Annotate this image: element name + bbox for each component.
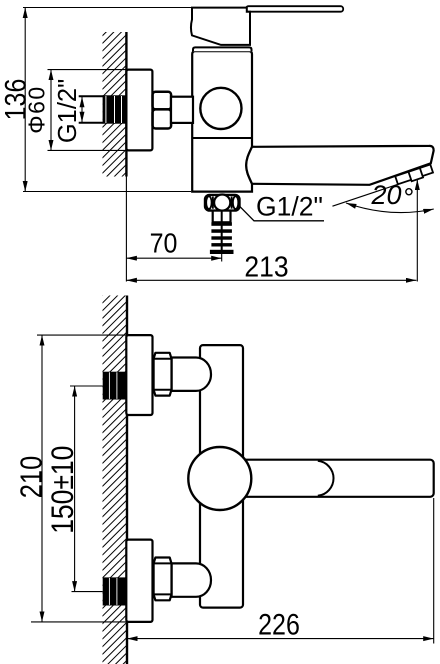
faucet body front view (200, 345, 243, 607)
label 213 (244, 250, 288, 282)
dimension 136 extension bottom (23, 191, 191, 193)
dimension 213 (126, 279, 416, 281)
svg-text:226: 226 (258, 608, 300, 641)
label 150+-10 (46, 446, 81, 534)
leader G1/2 outlet (239, 205, 324, 220)
escutcheon flange top view (126, 70, 152, 151)
label 226 (258, 608, 300, 641)
angle arc 20 deg (346, 203, 434, 213)
lower hex nut front view (154, 558, 172, 601)
dimension 150 extension top (70, 385, 103, 387)
hose ribs (210, 222, 234, 254)
wall nipple pipe (79, 96, 104, 123)
spout top view (246, 146, 433, 185)
dimension 136 line (24, 8, 26, 192)
hose stem (213, 211, 231, 223)
svg-text:G1/2": G1/2" (256, 192, 323, 222)
upper hex nut front view (154, 353, 172, 396)
hose center extension (221, 254, 223, 262)
dimension 210 extension bottom (31, 621, 126, 623)
svg-text:210: 210 (14, 456, 48, 499)
svg-text:°: ° (404, 183, 415, 213)
dimension 70 (126, 257, 221, 259)
handle cap top view (191, 8, 250, 45)
svg-text:70: 70 (150, 227, 178, 259)
shower hose cap nut (205, 195, 240, 211)
dimension 226 right extension (433, 498, 435, 644)
dimension 210 extension top (37, 334, 126, 336)
svg-text:213: 213 (244, 250, 288, 282)
hex nut top view (153, 92, 172, 129)
wall section (hatched) bottom view (103, 296, 128, 664)
upper eccentric pipe and dome (172, 358, 211, 391)
inlet pipe top view (171, 97, 193, 123)
lever handle front view (229, 460, 434, 497)
aerator on spout tip (330, 164, 434, 207)
label 210 (14, 456, 48, 499)
lower escutcheon (126, 540, 152, 622)
dimension 136 extension top (23, 7, 192, 9)
cartridge ring band (193, 47, 252, 51)
threaded section in wall (black) (103, 95, 127, 123)
wall face line bottom view (126, 296, 128, 664)
wall section (hatched) top view (103, 32, 127, 177)
dimension 226 (127, 638, 434, 640)
label 136 (0, 79, 32, 121)
lower eccentric pipe and dome (172, 563, 211, 596)
dimension 150 line (74, 386, 76, 592)
label 70 (150, 227, 178, 259)
svg-text:G1/2": G1/2" (54, 79, 82, 143)
lever grip arc (318, 461, 334, 496)
upper threaded pipe in wall (black) (103, 372, 127, 400)
wall face line (125, 32, 127, 177)
dimension 150 extension bottom (72, 591, 103, 593)
dimension G1/2 thread arrows (81, 97, 83, 122)
svg-text:Φ60: Φ60 (24, 85, 50, 133)
dimension phi60 line (50, 70, 52, 151)
faucet body top view (192, 51, 252, 191)
lever bar top view (246, 6, 343, 12)
dimension 210 line (41, 335, 43, 622)
lower threaded pipe in wall (black) (103, 577, 127, 605)
dimension phi60 extension lines (48, 69, 127, 71)
upper escutcheon (126, 335, 152, 415)
svg-text:20: 20 (371, 180, 402, 210)
body inner line (192, 137, 252, 139)
label G1/2 rotated (54, 79, 82, 143)
extension line spout tip vertical (416, 180, 418, 282)
connection boss circle (200, 88, 241, 129)
label phi60 (24, 85, 50, 133)
handle hub circle (188, 447, 251, 510)
extension line wall face down to dims (125, 177, 127, 282)
svg-text:150±10: 150±10 (46, 446, 81, 534)
